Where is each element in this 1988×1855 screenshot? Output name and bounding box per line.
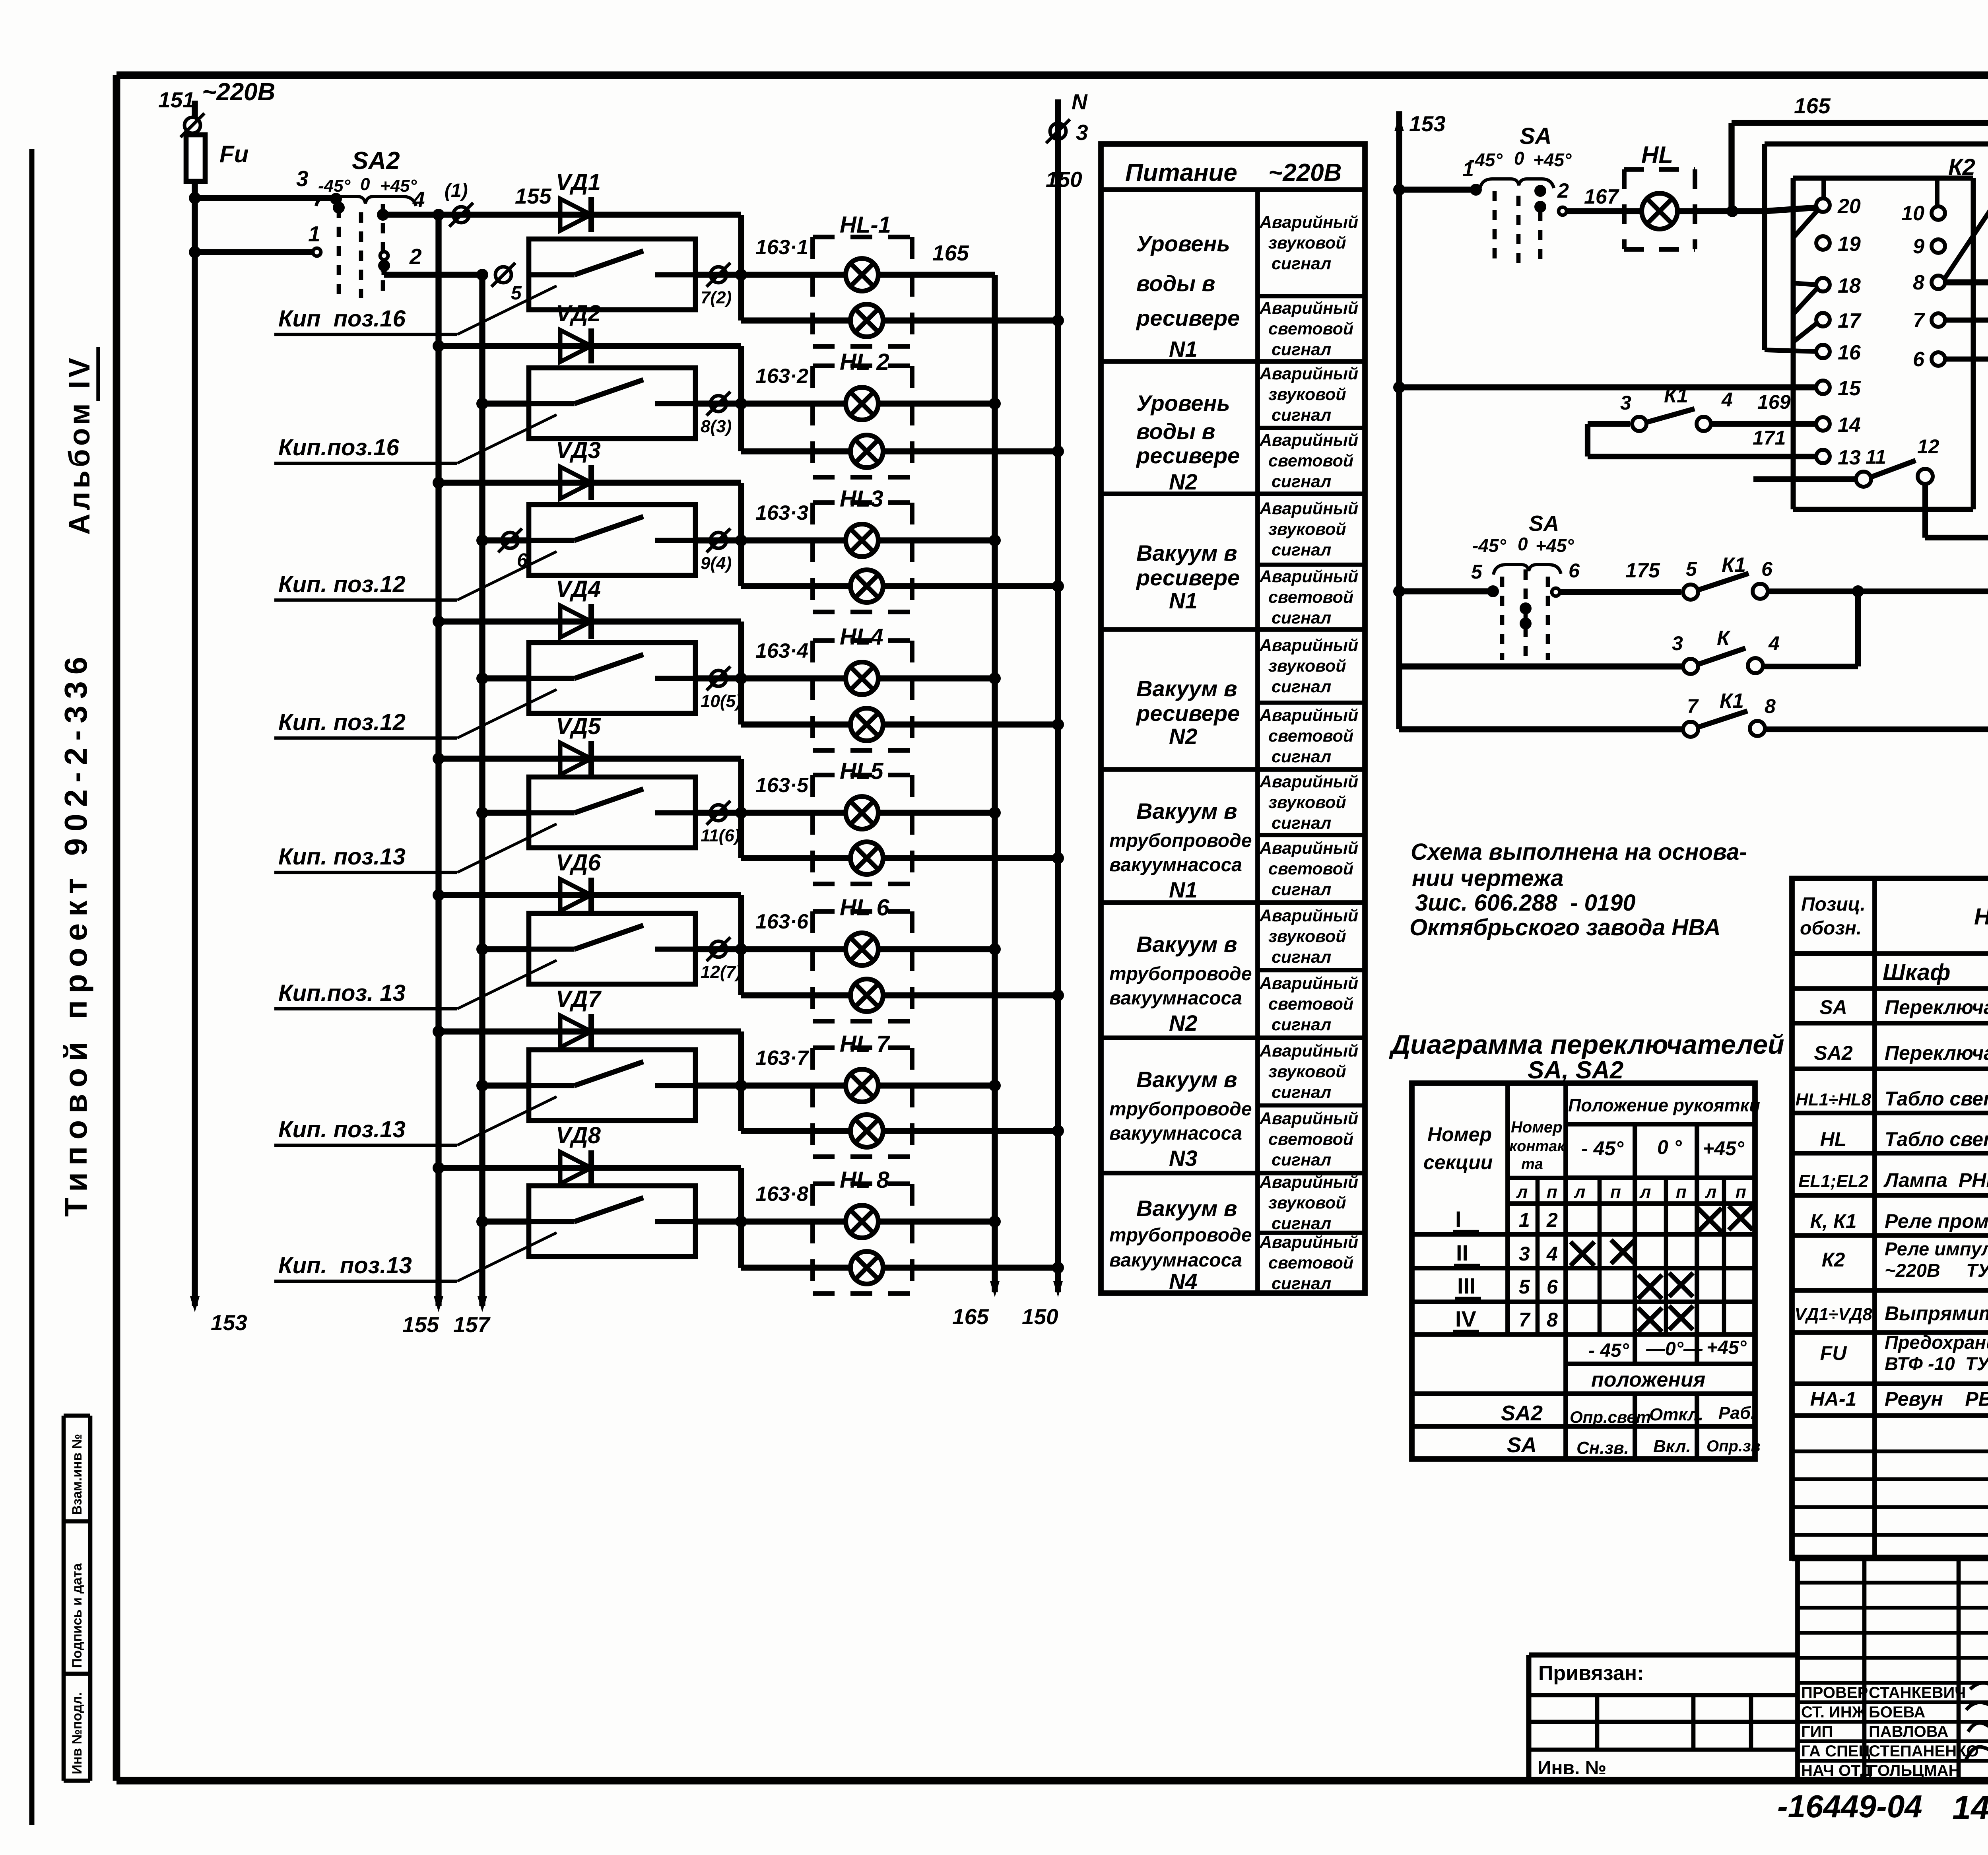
- svg-text:19: 19: [1838, 233, 1861, 256]
- diode VD2 rail wire: [439, 343, 741, 349]
- svg-text:I: I: [1455, 1206, 1462, 1231]
- svg-text:2: 2: [409, 244, 422, 269]
- svg-text:ГА СПЕЦ: ГА СПЕЦ: [1801, 1742, 1870, 1760]
- svg-text:сигнал: сигнал: [1272, 880, 1331, 899]
- svg-text:Наименование: Наименование: [1974, 904, 1988, 930]
- contact K2 11-12: [1753, 476, 1856, 482]
- SA2 pole 1 dashed: [337, 208, 341, 296]
- lamp HL3 upper: [846, 524, 878, 557]
- svg-text:HL 6: HL 6: [840, 895, 889, 921]
- svg-text:III: III: [1457, 1273, 1476, 1298]
- diode VD4: [560, 606, 591, 637]
- svg-text:VД6: VД6: [556, 850, 601, 876]
- svg-text:3: 3: [1620, 392, 1631, 414]
- svg-text:ресивере: ресивере: [1136, 443, 1240, 468]
- contact block KIP channel 2: [482, 400, 529, 406]
- svg-text:сигнал: сигнал: [1272, 472, 1331, 491]
- svg-text:5: 5: [511, 283, 522, 304]
- svg-text:2: 2: [1557, 179, 1569, 202]
- svg-text:HL3: HL3: [840, 486, 883, 512]
- diode VD2: [560, 330, 591, 362]
- diagram table: [1412, 1083, 1755, 1459]
- svg-text:6: 6: [1761, 558, 1773, 580]
- svg-text:трубопроводе: трубопроводе: [1109, 1225, 1252, 1246]
- signatures handwriting: [1970, 1680, 1988, 1689]
- svg-text:трубопроводе: трубопроводе: [1109, 963, 1252, 985]
- svg-text:Реле импульсной сигнализации: Реле импульсной сигнализации РИС-Э3М: [1885, 1238, 1988, 1259]
- diagram l/p row: [1508, 1201, 1755, 1206]
- svg-text:157: 157: [453, 1312, 491, 1337]
- relay K2 inner box: [1791, 178, 1796, 509]
- lamp block HL6 box: [813, 909, 912, 914]
- lamp block HL3 box: [813, 500, 912, 505]
- contact block KIP channel 4: [482, 675, 529, 681]
- svg-text:3: 3: [1519, 1243, 1530, 1265]
- contact block KIP channel 7: [482, 1082, 529, 1088]
- svg-text:VД1: VД1: [556, 169, 601, 195]
- svg-text:N1: N1: [1169, 336, 1198, 361]
- K2 pin8 diagonal: [1944, 204, 1988, 279]
- svg-text:9(4): 9(4): [701, 554, 732, 573]
- svg-text:трубопроводе: трубопроводе: [1109, 1099, 1252, 1120]
- svg-text:Аварийный: Аварийный: [1259, 299, 1358, 318]
- diode VD1: [560, 199, 591, 231]
- diode VD3: [560, 467, 591, 499]
- svg-text:2: 2: [1546, 1209, 1558, 1231]
- lamp block HL2 box: [813, 363, 912, 368]
- svg-text:Вкл.: Вкл.: [1653, 1437, 1691, 1456]
- svg-text:Уровень: Уровень: [1136, 231, 1230, 256]
- svg-text:звуковой: звуковой: [1268, 927, 1346, 946]
- svg-text:~220В ТУ16-523.311- 70: ~220В ТУ16-523.311- 70: [1885, 1260, 1988, 1281]
- wire 171 to pin 13: [1585, 424, 1590, 456]
- SA2 pole 2 dashed: [359, 212, 363, 298]
- svg-text:сигнал: сигнал: [1272, 814, 1331, 833]
- svg-text:IV: IV: [1455, 1306, 1476, 1331]
- terminal after block channel 8: [695, 1218, 741, 1224]
- svg-text:N3: N3: [1169, 1146, 1198, 1171]
- svg-text:N2: N2: [1169, 1010, 1198, 1035]
- svg-text:~220В: ~220В: [202, 78, 275, 106]
- svg-text:11: 11: [1866, 446, 1886, 468]
- svg-text:ГОЛЬЦМАН: ГОЛЬЦМАН: [1869, 1762, 1960, 1779]
- svg-text:175: 175: [1625, 559, 1660, 582]
- svg-text:Вакуум в: Вакуум в: [1136, 798, 1237, 824]
- wire 6 / 175 row: [1552, 588, 1560, 596]
- signature table: [1798, 1581, 1988, 1584]
- svg-text:Диаграмма переключателей: Диаграмма переключателей: [1389, 1029, 1784, 1060]
- svg-text:Аварийный: Аварийный: [1259, 772, 1358, 791]
- lamp HL7 upper: [846, 1069, 878, 1102]
- svg-text:контак: контак: [1509, 1138, 1565, 1155]
- svg-text:17: 17: [1838, 309, 1862, 332]
- SA2 pole 3 dashed: [381, 204, 385, 298]
- svg-text:ресивере: ресивере: [1136, 701, 1240, 726]
- svg-text:К2: К2: [1822, 1249, 1845, 1271]
- diode VD8: [560, 1152, 591, 1184]
- svg-text:Аварийный: Аварийный: [1259, 567, 1358, 586]
- svg-text:световой: световой: [1268, 451, 1353, 470]
- svg-text:Опр.зв: Опр.зв: [1706, 1437, 1761, 1455]
- svg-text:вакуумнасоса: вакуумнасоса: [1109, 1250, 1242, 1271]
- svg-text:Подпись и дата: Подпись и дата: [70, 1563, 85, 1668]
- lamp block HL8 box: [813, 1181, 912, 1186]
- diode VD8 rail wire: [439, 1165, 741, 1171]
- svg-text:9: 9: [1913, 235, 1924, 258]
- table Pitanie 220V: [1101, 144, 1365, 1293]
- svg-text:Ревун РВⅡ - 220: Ревун РВⅡ - 220: [1885, 1388, 1988, 1410]
- svg-text:HL 8: HL 8: [840, 1167, 889, 1193]
- svg-text:VД2: VД2: [556, 301, 601, 326]
- svg-text:К: К: [1717, 627, 1731, 650]
- svg-text:сигнал: сигнал: [1272, 747, 1331, 766]
- svg-text:л: л: [1574, 1182, 1585, 1202]
- svg-text:Шкаф: Шкаф: [1883, 960, 1950, 985]
- diode VD6: [560, 879, 591, 911]
- contact block KIP channel 6: [482, 946, 529, 952]
- lamp HL2 upper: [846, 387, 878, 420]
- lamp block HL1 box: [813, 235, 912, 239]
- svg-text:+45°: +45°: [1533, 150, 1572, 170]
- svg-text:5: 5: [1471, 561, 1483, 583]
- svg-text:18: 18: [1838, 274, 1861, 297]
- svg-text:7: 7: [1519, 1309, 1531, 1331]
- svg-text:п: п: [1610, 1182, 1621, 1202]
- lamp block HL7 box: [813, 1045, 912, 1050]
- svg-text:Переключатель УП5312-с45 ТУ16: Переключатель УП5312-с45 ТУ16-524:074-70: [1885, 1042, 1988, 1064]
- net 165 top link: [1732, 120, 1988, 126]
- svg-text:153: 153: [1409, 111, 1446, 136]
- svg-text:4: 4: [1721, 388, 1733, 411]
- svg-text:4: 4: [1768, 632, 1780, 655]
- svg-text:Fu: Fu: [219, 141, 248, 167]
- relay K2 pins left: [1816, 198, 1830, 212]
- K2 bracket 20-10: [1821, 178, 1826, 199]
- svg-text:HL: HL: [1641, 142, 1673, 168]
- svg-text:сигнал: сигнал: [1272, 1150, 1331, 1169]
- svg-text:163·8: 163·8: [755, 1183, 808, 1206]
- privyazan box: [1529, 1653, 1798, 1658]
- svg-text:7(2): 7(2): [701, 288, 732, 307]
- diode VD7 rail wire: [439, 1028, 741, 1034]
- terminal 151: [184, 117, 200, 133]
- terminal after block channel 2: [695, 400, 741, 406]
- vertical link channel 4: [738, 622, 744, 725]
- svg-text:15: 15: [1838, 377, 1861, 400]
- lamp HL8 lower: [850, 1251, 883, 1284]
- svg-text:Кип. поз.12: Кип. поз.12: [278, 709, 406, 735]
- svg-text:Питание: Питание: [1125, 159, 1237, 186]
- diode VD1 rail wire: [439, 212, 741, 218]
- K2 pin 20 wire: [1765, 208, 1816, 211]
- lamp HL3 lower: [850, 570, 883, 602]
- svg-text:SA: SA: [1520, 123, 1552, 149]
- bus 153 right: [1396, 111, 1402, 729]
- svg-text:VД8: VД8: [556, 1123, 601, 1148]
- svg-text:1: 1: [308, 221, 320, 246]
- svg-text:вакуумнасоса: вакуумнасоса: [1109, 855, 1242, 876]
- svg-text:Реле промежуточное РП25-220В Т: Реле промежуточное РП25-220В ТУ16-523.42…: [1885, 1210, 1988, 1232]
- contact block KIP channel 5: [482, 810, 529, 816]
- svg-text:СТАНКЕВИЧ: СТАНКЕВИЧ: [1869, 1684, 1966, 1702]
- K2 pin 7-6 jumper: [1945, 318, 1988, 323]
- svg-text:Привязан:: Привязан:: [1538, 1662, 1644, 1685]
- svg-text:Переключатель УП5312-А45 ТУ16: Переключатель УП5312-А45 ТУ16-524.074-70: [1885, 996, 1988, 1018]
- svg-text:Аварийный: Аварийный: [1259, 1041, 1358, 1061]
- svg-text:Номер: Номер: [1511, 1119, 1563, 1136]
- svg-text:Вакуум в: Вакуум в: [1136, 1196, 1237, 1221]
- svg-text:Лампа РНЦ 220-10: Лампа РНЦ 220-10: [1883, 1169, 1988, 1191]
- svg-text:165: 165: [932, 241, 969, 265]
- vertical link channel 5: [738, 759, 744, 858]
- svg-text:0: 0: [1518, 534, 1528, 554]
- contact K1 169 to pin 14: [1588, 421, 1630, 427]
- svg-text:N2: N2: [1169, 724, 1198, 749]
- svg-text:звуковой: звуковой: [1268, 1193, 1346, 1212]
- lamp HL1 lower: [850, 304, 883, 337]
- svg-text:3: 3: [1672, 632, 1683, 655]
- diagram data rows: [1412, 1232, 1755, 1237]
- svg-text:Аварийный: Аварийный: [1259, 839, 1358, 858]
- lamp block HL4 box: [813, 638, 912, 643]
- svg-text:СТ. ИНЖ: СТ. ИНЖ: [1801, 1703, 1867, 1721]
- parts list table: [1792, 878, 1988, 1558]
- K2 internal wires: [1793, 210, 1818, 238]
- lamp HL6 upper: [846, 933, 878, 965]
- svg-text:сигнал: сигнал: [1272, 948, 1331, 967]
- diode VD5 rail wire: [439, 756, 741, 761]
- lamp HL1 upper: [846, 258, 878, 291]
- svg-text:световой: световой: [1268, 1130, 1353, 1149]
- terminal after block channel 3: [695, 537, 741, 543]
- lamp HL5 upper: [846, 796, 878, 829]
- svg-text:+45°: +45°: [380, 176, 417, 196]
- svg-text:VД5: VД5: [556, 713, 601, 739]
- svg-text:световой: световой: [1268, 1253, 1353, 1272]
- svg-text:Аварийный: Аварийный: [1259, 1173, 1358, 1192]
- contact K row 3-4: [1399, 663, 1681, 669]
- svg-text:8: 8: [1765, 695, 1776, 717]
- svg-text:0: 0: [360, 175, 370, 194]
- vertical link channel 3: [738, 483, 744, 586]
- lamp block HL5 box: [813, 773, 912, 777]
- svg-text:Инв. №: Инв. №: [1538, 1758, 1606, 1779]
- svg-text:151: 151: [158, 87, 195, 112]
- svg-text:163·5: 163·5: [755, 774, 809, 797]
- svg-text:HL5: HL5: [840, 758, 883, 784]
- svg-text:сигнал: сигнал: [1272, 1214, 1331, 1233]
- wire contact 2 to net 157: [380, 252, 388, 260]
- svg-text:150: 150: [1022, 1304, 1058, 1329]
- vertical link channel 8: [738, 1168, 744, 1268]
- svg-text:12(7): 12(7): [701, 962, 742, 982]
- svg-text:3: 3: [296, 166, 309, 191]
- svg-text:звуковой: звуковой: [1268, 1062, 1346, 1081]
- svg-text:155: 155: [515, 184, 552, 208]
- svg-text:10: 10: [1901, 202, 1924, 225]
- svg-text:Кип.поз. 13: Кип.поз. 13: [278, 980, 406, 1006]
- svg-text:SA2: SA2: [1501, 1401, 1543, 1425]
- svg-text:Вакуум в: Вакуум в: [1136, 540, 1237, 565]
- lamp HL4 lower: [850, 708, 883, 741]
- svg-text:Кип. поз.13: Кип. поз.13: [278, 1117, 406, 1142]
- wire 177 row to coil K1: [1858, 589, 1988, 594]
- svg-text:сигнал: сигнал: [1272, 254, 1331, 273]
- svg-text:7: 7: [1687, 695, 1699, 717]
- svg-text:SA: SA: [1819, 996, 1847, 1018]
- wire contact 2 to lamp HL: [1559, 207, 1567, 215]
- svg-text:световой: световой: [1268, 726, 1353, 746]
- svg-text:6: 6: [1913, 348, 1925, 371]
- svg-text:ресивере: ресивере: [1136, 305, 1240, 330]
- svg-text:БОЕВА: БОЕВА: [1869, 1703, 1925, 1721]
- terminal after block channel 5: [695, 810, 741, 816]
- terminal (1) on net 155: [453, 207, 469, 223]
- svg-text:-45°: -45°: [1472, 535, 1506, 556]
- wire 5 from 153: [1399, 588, 1493, 594]
- svg-text:163·4: 163·4: [755, 639, 808, 662]
- svg-text:13: 13: [1838, 446, 1861, 469]
- svg-text:звуковой: звуковой: [1268, 520, 1346, 539]
- diode VD5: [560, 743, 591, 775]
- svg-text:SA2: SA2: [352, 147, 400, 175]
- lamp HL7 lower: [850, 1115, 883, 1147]
- contact block KIP channel 3: [482, 537, 529, 543]
- svg-text:Кип. поз.13: Кип. поз.13: [278, 1253, 412, 1278]
- svg-text:169: 169: [1757, 391, 1791, 413]
- terminal after block channel 7: [695, 1082, 741, 1088]
- svg-text:К1: К1: [1722, 554, 1746, 577]
- svg-text:SA: SA: [1529, 511, 1559, 536]
- svg-text:Аварийный: Аварийный: [1259, 974, 1358, 993]
- svg-text:Предохранитель ППТ-10 плавкая: Предохранитель ППТ-10 плавкая вставка: [1885, 1332, 1988, 1353]
- svg-text:4: 4: [1546, 1243, 1558, 1265]
- terminal 6 before block: [502, 532, 518, 548]
- vertical link channel 7: [738, 1031, 744, 1131]
- svg-text:167: 167: [1584, 185, 1619, 208]
- svg-text:+45°: +45°: [1703, 1137, 1745, 1160]
- svg-text:секции: секции: [1423, 1151, 1493, 1173]
- svg-text:сигнал: сигнал: [1272, 677, 1331, 696]
- diagram bottom rows: [1566, 1362, 1755, 1366]
- svg-text:Октябрьского завода НВА: Октябрьского завода НВА: [1409, 915, 1721, 940]
- diode VD6 rail wire: [439, 892, 741, 898]
- diode VD4 rail wire: [439, 618, 741, 624]
- svg-text:Опр.свет: Опр.свет: [1570, 1408, 1651, 1426]
- svg-text:СТЕПАНЕНКО: СТЕПАНЕНКО: [1869, 1742, 1979, 1760]
- svg-text:К1: К1: [1664, 384, 1688, 407]
- svg-text:155: 155: [402, 1312, 439, 1337]
- svg-text:FU: FU: [1820, 1342, 1848, 1364]
- svg-text:-45°: -45°: [1469, 150, 1503, 170]
- svg-text:п: п: [1736, 1182, 1746, 1202]
- svg-text:Аварийный: Аварийный: [1259, 636, 1358, 655]
- bus 157 vertical: [479, 275, 485, 1306]
- svg-text:сигнал: сигнал: [1272, 540, 1331, 559]
- bottom-left stamp column: [64, 1414, 90, 1418]
- contact K1 row 7-8 bell circuit: [1399, 726, 1681, 732]
- bus 155 vertical: [435, 215, 441, 1306]
- svg-text:163·7: 163·7: [755, 1047, 809, 1070]
- svg-text:Вакуум в: Вакуум в: [1136, 676, 1237, 701]
- svg-text:VД1÷VД8: VД1÷VД8: [1794, 1305, 1872, 1324]
- svg-text:6: 6: [1569, 559, 1580, 582]
- svg-text:6: 6: [1547, 1276, 1558, 1298]
- vertical link channel 6: [738, 895, 744, 995]
- svg-text:-16449-04: -16449-04: [1777, 1789, 1922, 1824]
- svg-text:HL 7: HL 7: [840, 1031, 890, 1057]
- outer left trim line: [29, 149, 35, 1825]
- svg-text:К1: К1: [1720, 690, 1744, 713]
- svg-text:ЕL1;ЕL2: ЕL1;ЕL2: [1798, 1171, 1869, 1191]
- svg-text:Раб.: Раб.: [1718, 1403, 1755, 1423]
- svg-text:SA, SA2: SA, SA2: [1528, 1057, 1623, 1084]
- svg-text:сигнал: сигнал: [1272, 1274, 1331, 1293]
- svg-text:сигнал: сигнал: [1272, 406, 1331, 425]
- sheet frame: [116, 72, 1988, 79]
- svg-text:Положение рукоятки: Положение рукоятки: [1568, 1095, 1760, 1115]
- svg-text:HL 2: HL 2: [840, 349, 889, 375]
- svg-text:Аварийный: Аварийный: [1259, 1109, 1358, 1128]
- svg-text:Кип. поз.12: Кип. поз.12: [278, 571, 406, 597]
- svg-text:сигнал: сигнал: [1272, 340, 1331, 359]
- svg-text:обозн.: обозн.: [1800, 918, 1862, 939]
- svg-text:Табло световое ТСБ 220В ТУ16-5: Табло световое ТСБ 220В ТУ16-524-074-70: [1885, 1088, 1988, 1110]
- svg-text:звуковой: звуковой: [1268, 793, 1346, 812]
- wire 153 to pin 15: [1399, 384, 1816, 390]
- svg-text:сигнал: сигнал: [1272, 608, 1331, 627]
- svg-text:трубопроводе: трубопроводе: [1109, 830, 1252, 851]
- svg-text:НАЧ ОТД: НАЧ ОТД: [1801, 1762, 1872, 1779]
- svg-text:сигнал: сигнал: [1272, 1083, 1331, 1102]
- lamp HL8 upper: [846, 1205, 878, 1238]
- svg-text:Кип поз.16: Кип поз.16: [278, 306, 406, 332]
- lamp HL2 lower: [850, 435, 883, 468]
- svg-text:+45°: +45°: [1536, 535, 1574, 556]
- lamp HL: [1624, 208, 1642, 214]
- svg-text:150: 150: [1046, 167, 1082, 192]
- svg-text:Аварийный: Аварийный: [1259, 706, 1358, 725]
- svg-text:10(5): 10(5): [701, 691, 742, 711]
- svg-text:световой: световой: [1268, 995, 1353, 1014]
- svg-text:5: 5: [1686, 558, 1697, 580]
- svg-text:Номер: Номер: [1427, 1123, 1492, 1146]
- svg-text:звуковой: звуковой: [1268, 657, 1346, 676]
- K2 pin 8 wire to 150: [1945, 279, 1988, 285]
- svg-text:8: 8: [1913, 271, 1924, 294]
- svg-text:N1: N1: [1169, 877, 1198, 902]
- svg-text:п: п: [1547, 1182, 1557, 1202]
- svg-text:ресивере: ресивере: [1136, 565, 1240, 590]
- lamp HL5 lower: [850, 842, 883, 874]
- svg-text:Выпрямитель полупроводниковый: Выпрямитель полупроводниковый Д-226 Б: [1885, 1302, 1988, 1325]
- svg-text:Аварийный: Аварийный: [1259, 431, 1358, 450]
- svg-text:воды в: воды в: [1136, 419, 1215, 444]
- terminal after block channel 4: [695, 675, 741, 681]
- svg-text:7: 7: [1913, 309, 1925, 332]
- svg-text:171: 171: [1753, 427, 1786, 449]
- svg-text:л: л: [1516, 1182, 1528, 1202]
- svg-text:163·1: 163·1: [755, 236, 808, 259]
- svg-text:Взам.инв №: Взам.инв №: [70, 1434, 85, 1515]
- svg-text:8(3): 8(3): [701, 417, 732, 436]
- wire contact 1 SA: [1399, 186, 1476, 192]
- svg-text:вакуумнасоса: вакуумнасоса: [1109, 1123, 1242, 1144]
- svg-text:VД4: VД4: [556, 576, 601, 602]
- svg-text:HL1÷HL8: HL1÷HL8: [1796, 1090, 1872, 1109]
- diagram X marks: [1698, 1208, 1722, 1232]
- svg-text:153: 153: [211, 1310, 247, 1335]
